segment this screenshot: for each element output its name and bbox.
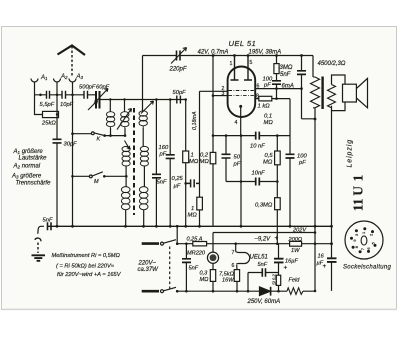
resistor 25k leads [35, 95, 59, 115]
svg-text:100: 100 [297, 154, 307, 160]
resistor 1M (second) body [197, 197, 203, 210]
rectifier diode [260, 287, 271, 296]
fuse 0.25A body [193, 242, 207, 246]
svg-text:1: 1 [191, 153, 194, 159]
heater to resistor 7.5k [236, 265, 238, 270]
capacitor 50pF (grid) in wire [177, 96, 181, 104]
capacitor 10nF in mid rail [256, 132, 260, 140]
svg-text:6: 6 [257, 84, 260, 90]
svg-text:UEL51: UEL51 [250, 255, 268, 261]
svg-text:0,18mA: 0,18mA [192, 111, 198, 130]
coil L5 [140, 146, 148, 166]
capacitor 5nF (anode) column [302, 56, 316, 119]
resistor 0.3M (lamp) body [210, 270, 215, 282]
wire 220pF top rail [143, 55, 314, 57]
svg-text:50pF: 50pF [173, 90, 187, 96]
antenna lead (dashed) [71, 46, 73, 76]
svg-text:+: + [284, 265, 288, 272]
svg-text:–9,2V: –9,2V [254, 237, 272, 243]
resistor 1M body [183, 151, 189, 163]
capacitor 10pF [62, 91, 66, 99]
wire bus to switch pole1 [176, 226, 178, 243]
earth dashed lead [37, 243, 39, 254]
svg-text:60pF: 60pF [96, 85, 110, 91]
svg-text:195V, 38mA: 195V, 38mA [249, 49, 282, 55]
tube cathode lead pin4 [240, 106, 242, 135]
terminal A3 cup [69, 79, 76, 95]
svg-text:+: + [275, 235, 279, 242]
coil L2 tuned winding [121, 112, 129, 128]
svg-text:A1: A1 [40, 75, 48, 81]
fuse Si body [276, 275, 280, 285]
screen bypass column 100pF [289, 99, 291, 227]
resistor 0.5M body [275, 151, 281, 165]
svg-text:1 kΩ: 1 kΩ [258, 104, 271, 110]
svg-text:Meßinstrument Ri = 0,5MΩ: Meßinstrument Ri = 0,5MΩ [52, 253, 121, 259]
capacitor 100pF plates [286, 154, 295, 158]
terminal A2 cup [54, 79, 61, 95]
resistor 1k body [259, 96, 272, 101]
lower rail [226, 181, 277, 183]
svg-text:0,25 A: 0,25 A [187, 237, 203, 243]
svg-text:1: 1 [230, 61, 233, 67]
wire speaker return column [331, 111, 333, 291]
svg-text:3: 3 [222, 91, 225, 97]
arrow tuning [88, 101, 98, 111]
svg-text:A3 größere: A3 größere [11, 174, 42, 180]
speaker cone [356, 78, 367, 107]
wire L-column links [126, 128, 145, 226]
resistor 3M body [274, 64, 279, 74]
svg-text:für 220V~wird +A = 165V: für 220V~wird +A = 165V [57, 272, 122, 278]
svg-text:5nF: 5nF [157, 180, 167, 186]
svg-text:16W: 16W [222, 278, 234, 284]
capacitor 5nF plates [262, 268, 265, 277]
svg-text:10 nF: 10 nF [250, 144, 265, 150]
capacitor 500pF [84, 91, 88, 99]
output transformer primary winding [311, 77, 320, 108]
svg-text:220pF: 220pF [169, 67, 187, 73]
wire K feed [73, 133, 92, 135]
svg-text:4500/2,3Ω: 4500/2,3Ω [318, 61, 346, 67]
transformer core [321, 77, 323, 110]
svg-text:5nF: 5nF [258, 262, 268, 268]
svg-text:MΩ: MΩ [189, 159, 199, 165]
wire pin3 [213, 95, 228, 97]
svg-text:5,5pF: 5,5pF [40, 102, 55, 108]
svg-text:160: 160 [159, 145, 169, 151]
wire speaker loop top [332, 75, 346, 85]
heater feed wire pin7 [235, 244, 237, 252]
underline Feld [288, 282, 301, 284]
mid rail (cathode/AGC) [213, 135, 290, 137]
switch mechanical link (dashed) [169, 247, 171, 289]
wire B+ column down [314, 119, 316, 291]
svg-text:Lautstärke: Lautstärke [19, 156, 48, 162]
svg-text:pF: pF [159, 152, 167, 158]
svg-text:250V, 60mA: 250V, 60mA [247, 299, 281, 305]
capacitor 50pF plates [222, 154, 231, 158]
rotated brand text Leipzig [347, 139, 366, 211]
svg-text:0,1: 0,1 [264, 114, 272, 120]
svg-text:1W: 1W [291, 248, 300, 254]
resistor 1M column [185, 100, 187, 227]
svg-text:A2 normal: A2 normal [13, 164, 41, 170]
svg-text:MΩ: MΩ [200, 159, 210, 165]
capacitor 16uF plates [274, 259, 284, 263]
field coil (zigzag) [287, 288, 303, 295]
bias line 202V [213, 232, 315, 234]
svg-text:MΩ: MΩ [263, 160, 273, 166]
svg-text:6mA: 6mA [282, 84, 294, 90]
capacitor 160pF plates [166, 155, 175, 159]
capacitor 16uF (1st) column [278, 244, 280, 292]
wire tuned circuit top rail [100, 99, 186, 101]
capacitor 0.25uF in rail [186, 179, 200, 187]
capacitor 5nF (IF) column [155, 100, 157, 227]
wire grid feed corner [200, 91, 228, 183]
ground symbol [32, 255, 46, 260]
wire oscillator feed column [142, 56, 145, 113]
wire earth lead [38, 226, 44, 234]
rotated brand text 1U11 [351, 175, 366, 212]
svg-text:10pF: 10pF [60, 102, 74, 108]
coil L1 antenna winding [106, 112, 114, 128]
svg-text:pF: pF [298, 160, 306, 166]
svg-text:50: 50 [234, 155, 241, 161]
svg-text:M: M [94, 179, 99, 185]
capacitor 10nF (second) in lower rail [256, 178, 260, 186]
svg-text:Si 0,2: Si 0,2 [272, 274, 277, 285]
main ground bus [48, 225, 333, 227]
resistor 0.2M body [210, 152, 216, 163]
wire M feed [73, 175, 90, 177]
arrow L3 variable [141, 101, 154, 114]
svg-text:MΩ: MΩ [200, 277, 210, 283]
coil L7 [139, 187, 148, 210]
svg-text:µF: µF [174, 184, 181, 190]
svg-text:MΩ: MΩ [188, 213, 198, 219]
svg-text:Trennschärfe: Trennschärfe [16, 181, 52, 187]
switch K [91, 132, 94, 135]
lamp MR220 column [212, 233, 214, 291]
capacitor 5nF plates [297, 71, 306, 75]
svg-text:MR220: MR220 [187, 251, 206, 257]
arrow L2 variable [117, 109, 132, 130]
speaker magnet [343, 84, 357, 102]
mains switch pole2 [142, 290, 159, 293]
coil L6 [121, 187, 130, 210]
svg-text:10nF: 10nF [252, 171, 266, 177]
svg-text:8: 8 [256, 94, 259, 100]
svg-text:K: K [97, 137, 101, 143]
trimmer capacitor 220pF [177, 51, 181, 61]
svg-text:30pF: 30pF [64, 142, 78, 148]
svg-text:0,5: 0,5 [265, 153, 274, 159]
svg-text:0,2: 0,2 [200, 153, 209, 159]
wire coil1 feed [109, 100, 111, 113]
svg-text:5nF: 5nF [280, 72, 291, 78]
capacitor 100pF (coupling) plates [272, 81, 281, 84]
coil L4 [122, 146, 130, 166]
tube heater UEL51 [236, 252, 250, 265]
svg-text:pF: pF [263, 83, 271, 89]
tube pin5 stem + plate [244, 56, 252, 81]
svg-text:UEL 51: UEL 51 [229, 39, 257, 48]
svg-text:200Ω: 200Ω [288, 237, 303, 243]
antenna mast [58, 46, 86, 56]
svg-text:16: 16 [318, 254, 325, 260]
tube UEL51 envelope [228, 67, 256, 118]
wire column A3 down [72, 95, 74, 227]
arrow into L4 [125, 141, 130, 150]
wire pin6 [255, 88, 301, 90]
svg-text:7: 7 [232, 250, 235, 256]
resistor 200ohm body [290, 241, 302, 246]
resistor 7.5k 16W body [234, 270, 239, 282]
trimmer capacitor 60pF / tuning gang plates [96, 91, 100, 109]
arrow 220pF [171, 48, 187, 64]
svg-text:1: 1 [191, 206, 194, 212]
svg-text:Leipzig: Leipzig [347, 139, 354, 167]
resistor 25k body [43, 111, 59, 117]
capacitor 5nF plates [152, 174, 161, 178]
svg-text:pF: pF [233, 162, 241, 168]
terminal A1 cup [31, 79, 38, 95]
bias/heater line with fuse [177, 243, 331, 245]
svg-text:6: 6 [232, 263, 235, 269]
cathode return column [240, 136, 242, 227]
svg-text:A1 größere: A1 größere [13, 149, 44, 155]
svg-text:11: 11 [351, 198, 366, 211]
svg-text:25kΩ: 25kΩ [41, 121, 56, 127]
svg-text:0,3MΩ: 0,3MΩ [255, 203, 273, 209]
svg-text:+: + [323, 263, 327, 270]
svg-text:5nF: 5nF [189, 266, 199, 272]
svg-text:1: 1 [351, 175, 366, 182]
wire K to coils [105, 128, 126, 136]
svg-text:5: 5 [250, 60, 253, 66]
tube socket diagram [345, 221, 383, 259]
svg-text:MΩ: MΩ [264, 120, 274, 126]
svg-text:ca.37W: ca.37W [138, 267, 160, 273]
column 42V feed [212, 56, 214, 136]
svg-text:5nF: 5nF [43, 218, 53, 224]
earth hook terminal [35, 238, 41, 241]
switch M [89, 175, 92, 178]
svg-text:4: 4 [235, 120, 238, 126]
svg-text:3MΩ: 3MΩ [280, 65, 293, 71]
wire coil2 feed [124, 100, 126, 113]
wire rail corner to transformer [312, 56, 314, 78]
tube pin1 stem + plate [231, 56, 239, 81]
capacitor 5nF (mains) column [185, 244, 187, 291]
wire antenna input chain [35, 94, 97, 96]
resistor 0.3M body [275, 198, 281, 210]
tube grid (dash-dot) [229, 90, 255, 92]
wire pin8 + resistor 1k [255, 98, 290, 100]
capacitor 160pF column [169, 100, 171, 227]
bottom mains bus [177, 290, 315, 292]
capacitor 30pF column [56, 95, 58, 227]
svg-text:0,3: 0,3 [200, 271, 209, 277]
capacitor 5nF (ripple) wire [248, 273, 279, 292]
svg-text:Sockelschaltung: Sockelschaltung [343, 265, 392, 271]
output transformer secondary winding [328, 85, 336, 108]
svg-text:202V: 202V [292, 228, 307, 234]
arrow 60pF trimmer [94, 89, 108, 104]
svg-text:220V~: 220V~ [138, 261, 157, 267]
mains switch pole1 [142, 242, 159, 245]
svg-text:0,25: 0,25 [172, 176, 184, 182]
svg-text:42V, 0,7mA: 42V, 0,7mA [198, 49, 229, 55]
capacitor 30pF plates [53, 139, 62, 143]
svg-text:A2: A2 [60, 74, 68, 80]
ferrite core (dashed) [133, 108, 135, 215]
scale lamp MR220 [207, 252, 218, 263]
resistor 3M column [276, 56, 278, 99]
svg-text:( = Ri 50kΩ) bei 220V≈: ( = Ri 50kΩ) bei 220V≈ [56, 264, 115, 270]
svg-text:U: U [351, 186, 366, 196]
svg-text:500pF: 500pF [79, 85, 96, 91]
wire speaker loop bottom [332, 102, 346, 111]
capacitor 16uF (2nd) plates [327, 258, 337, 262]
capacitor 5nF plates [182, 259, 191, 263]
capacitor 50pF (cathode) column [225, 136, 227, 182]
svg-text:A3: A3 [76, 74, 84, 80]
capacitor 5nF (earth) plates [48, 222, 52, 230]
capacitor 5.5pF [47, 91, 50, 99]
coil L3 oscillator winding [139, 108, 147, 128]
